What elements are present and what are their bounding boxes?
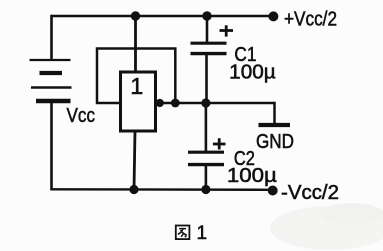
wire: C1 to output node bbox=[205, 54, 208, 103]
junction dot: feedback / output bbox=[171, 99, 180, 108]
wire: top rail to C1 bbox=[206, 16, 209, 42]
junction dot: top rail / C1 bbox=[202, 11, 211, 20]
battery B1 plate 2 (short thick -) bbox=[40, 71, 63, 75]
svg-text:100µ: 100µ bbox=[227, 165, 278, 187]
capacitor C1 plate top bbox=[191, 42, 227, 45]
junction dot: top rail / IC bbox=[131, 11, 140, 20]
capacitor C2 plate top bbox=[188, 151, 224, 154]
background smudge bbox=[270, 206, 383, 250]
wire: left rail bottom bbox=[50, 101, 53, 191]
terminal dot +Vcc/2 bbox=[268, 11, 278, 21]
wire: GND drop bbox=[273, 102, 276, 125]
terminal dot -Vcc/2 bbox=[268, 186, 278, 196]
wire: IC output to GND drop bbox=[156, 102, 276, 105]
IC U1 box bbox=[121, 72, 156, 131]
wire: top rail bbox=[51, 15, 273, 17]
wire: IC bottom to bottom rail bbox=[134, 131, 135, 190]
polarity + for C2 bbox=[213, 138, 226, 149]
junction dot: bottom rail / IC bbox=[129, 185, 138, 194]
ground symbol bar bbox=[259, 123, 291, 127]
battery B1 plate 3 (long thin +) bbox=[31, 86, 72, 88]
caption: hanzi TU (figure) drawn glyph bbox=[176, 226, 190, 240]
battery B1 plate 4 (long thick -) bbox=[36, 99, 71, 103]
battery B1 plate 1 (long thin +) bbox=[30, 59, 71, 61]
svg-text:GND: GND bbox=[256, 131, 294, 153]
capacitor C2 plate bottom bbox=[188, 163, 224, 166]
junction dot: output / C1-C2 bbox=[201, 98, 210, 107]
wire: C2 to bottom rail bbox=[205, 165, 208, 190]
wire: top rail to IC input bbox=[134, 16, 137, 73]
wire: left rail top (battery top stub) bbox=[50, 15, 53, 60]
svg-text:100µ: 100µ bbox=[229, 62, 276, 84]
svg-text:1: 1 bbox=[197, 223, 208, 244]
feedback wire loop (outer rectangle) bbox=[97, 49, 175, 104]
junction dot: output pin bbox=[156, 99, 164, 107]
polarity + for C1 bbox=[220, 25, 234, 36]
svg-text:-Vcc/2: -Vcc/2 bbox=[281, 182, 339, 204]
junction dot: bottom rail / C2 bbox=[201, 185, 210, 194]
svg-text:1: 1 bbox=[130, 73, 143, 99]
wire: output node to C2 bbox=[205, 103, 208, 151]
svg-text:Vcc: Vcc bbox=[67, 105, 96, 127]
svg-text:+Vcc/2: +Vcc/2 bbox=[284, 9, 337, 31]
wire: bottom rail bbox=[51, 188, 274, 191]
capacitor C1 plate bottom bbox=[191, 52, 227, 55]
